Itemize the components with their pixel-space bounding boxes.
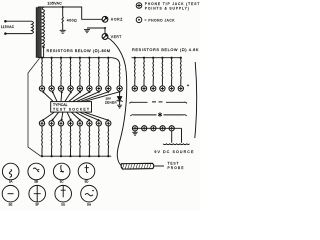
resistors: left bank lower row [42,126,109,156]
wire: VERT jack to test probe [108,38,127,166]
wire: left return rail [28,58,41,156]
resistor 400Ω [62,7,64,17]
svg-text:PROBE: PROBE [168,166,185,170]
node: VERT junction [104,27,106,29]
svg-text:5F: 5F [35,202,39,206]
svg-text:9V DC SOURCE: 9V DC SOURCE [154,150,194,154]
label box TYPICAL TEST SOCKET with leader arrows [43,91,121,120]
svg-text:PHONE TIP JACK (TEST: PHONE TIP JACK (TEST [145,2,200,6]
tube socket 5C [53,163,70,180]
wire: junction to VERT [104,28,106,34]
wire: break line 1 [129,102,187,103]
bracket: 9V DC source [163,143,190,146]
tube socket 5B [28,163,45,180]
svg-text:5B: 5B [34,180,38,184]
phono jack HORZ [102,16,108,22]
svg-text:ZENER: ZENER [105,100,117,104]
ground (below first 9V jack) [132,131,137,135]
svg-text:RESISTORS BELOW (Ω)-80M: RESISTORS BELOW (Ω)-80M [47,48,111,53]
svg-text:POINTS & SUPPLY): POINTS & SUPPLY) [145,7,189,11]
tube socket 5G [55,185,72,202]
svg-text:= PHONO JACK: = PHONO JACK [145,18,176,22]
wire: break line 2 [130,115,186,116]
svg-text:115VAC: 115VAC [1,25,15,29]
ground (below 400Ω) [60,30,66,33]
transformer T1 primary winding [4,20,33,35]
wire: left bottom bus [41,155,111,157]
wire: left top bus [38,58,120,65]
resistors: right bank [134,58,181,86]
test probe [121,163,164,169]
svg-text:VERT: VERT [111,35,122,39]
node: spare tick right of last right-bank socket [187,84,189,86]
svg-text:5E: 5E [9,202,13,206]
svg-text:400Ω: 400Ω [67,19,77,23]
tube socket 5D [78,163,95,180]
ground (VERT shield) [84,28,105,33]
svg-text:5C: 5C [60,180,65,184]
svg-text:5A: 5A [9,180,13,184]
svg-text:TYPICAL: TYPICAL [53,103,68,107]
nodes: left bus junctions [41,57,110,59]
wire: top bus to HORZ [38,7,102,19]
wire: right top bus [132,57,182,59]
svg-text:RESISTORS BELOW (Ω) 4.6K: RESISTORS BELOW (Ω) 4.6K [132,47,199,52]
zener diode 10V [117,91,123,108]
svg-text:105VAC: 105VAC [47,1,62,5]
nodes: bottom bus junctions [41,155,110,157]
svg-text:5D: 5D [85,180,90,184]
resistors: left bank upper row [42,58,120,86]
transformer T1 secondary winding [42,7,44,47]
legend: phone tip jack symbol [136,3,142,9]
svg-text:5G: 5G [61,202,66,206]
tube socket 5A [2,163,19,180]
nodes: right bus junctions [134,57,182,59]
battery 9V leads [172,128,182,143]
svg-text:TEST SOCKET: TEST SOCKET [53,108,90,112]
panel bracket (right paren) [195,62,197,138]
tube socket 5H [81,185,98,202]
wire: 9V row bus [132,127,182,129]
test sockets right row [132,86,183,91]
legend: phono jack symbol [136,17,142,23]
phono jack VERT [102,34,108,40]
jacks: 9V source row [132,126,174,131]
test sockets row 2 [39,121,111,126]
wire: secondary to left bus [43,47,45,57]
svg-text:5H: 5H [87,202,91,206]
test sockets row 1 [39,86,122,91]
node: 400-ohm tap [62,6,64,8]
tube socket 5E [2,185,19,202]
svg-text:HORZ: HORZ [111,18,123,22]
transformer T1 core [36,7,41,58]
tube socket 5F [29,185,46,202]
symbol: asterisk on break line 2 [158,112,162,116]
